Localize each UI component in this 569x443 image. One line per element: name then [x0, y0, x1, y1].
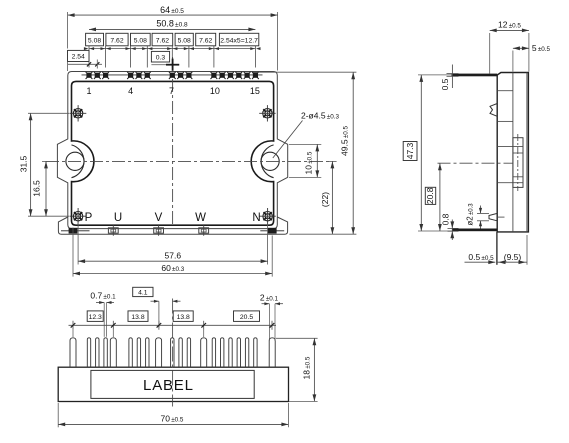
side view: ear top edge — [497, 146, 513, 148]
signal pin 9 (front view) — [187, 338, 190, 367]
round pin top-right (phi2) — [259, 105, 275, 121]
boxed pitch dimension 7.62 — [106, 33, 128, 46]
svg-text:13.8: 13.8 — [131, 314, 144, 321]
left mounting hole phi4.5 — [66, 152, 84, 170]
boxed pitch dimension 7.62 — [152, 33, 173, 46]
svg-text:5.08: 5.08 — [178, 38, 191, 45]
plan vertical centerline — [172, 57, 174, 226]
dimension 4.1 (boxed) V pin to pin 7 — [133, 287, 181, 327]
side view: case/baseplate boundary line — [512, 73, 514, 232]
dimension 0.7 +/-0.1 signal pin width — [90, 291, 116, 337]
svg-text:7.62: 7.62 — [110, 38, 123, 45]
svg-text:12.3: 12.3 — [89, 314, 102, 321]
side view: hole centerline horizontal — [438, 162, 514, 164]
svg-text:(9.5): (9.5) — [504, 252, 522, 262]
svg-text:5.08: 5.08 — [88, 38, 101, 45]
svg-text:LABEL: LABEL — [143, 377, 194, 394]
svg-text:10: 10 — [210, 86, 220, 96]
svg-text:15: 15 — [250, 86, 260, 96]
signal pin 6 (front view) — [146, 338, 149, 367]
signal pin 10 (front view) — [212, 338, 215, 367]
signal pin 5 (plan, hatched square) — [136, 73, 141, 78]
dimension 12 +/-0.5 overall height — [490, 19, 529, 73]
dimension (22) hole center to bottom — [320, 161, 336, 234]
boxed pitch dimension 2.54x5=12.7 — [219, 33, 258, 46]
side view: boss block inner lines — [513, 147, 523, 183]
side view: phi2 round pin stub — [489, 213, 497, 220]
dimension 0.8 power pin protrusion — [440, 213, 458, 240]
signal pin 7 (front view) — [171, 338, 174, 367]
signal pin 1 (plan, hatched square) — [86, 73, 91, 78]
pitch boundary extension lines — [89, 46, 255, 68]
svg-text:U: U — [114, 212, 122, 224]
svg-text:W: W — [195, 212, 206, 224]
signal pin 8 (front view) — [179, 338, 182, 367]
power pin tab at x=203.7 (plan) — [199, 228, 209, 233]
svg-text:7: 7 — [169, 86, 174, 96]
signal pin 13 (front view) — [237, 338, 240, 367]
dimension 5 +/-0.5 baseplate height — [513, 43, 551, 72]
svg-text:0.3: 0.3 — [156, 55, 166, 62]
side view: mounting boss block — [513, 138, 523, 188]
dimension 2 +/-0.1 power pin width — [260, 292, 283, 341]
svg-text:47.3: 47.3 — [405, 142, 415, 159]
signal pin 15 (front view) — [254, 338, 257, 367]
svg-text:13.8: 13.8 — [177, 314, 190, 321]
signal pin 4 (plan, hatched square) — [128, 73, 133, 78]
side view: signal pin row (edge-on) — [452, 74, 498, 77]
svg-text:0.5: 0.5 — [440, 78, 450, 90]
signal pin 8 (plan, hatched square) — [178, 73, 183, 78]
signal pin 6 (plan, hatched square) — [145, 73, 150, 78]
dimension 10 +/-0.5 ear width — [289, 144, 321, 177]
signal pin 7 (plan, hatched square) — [170, 73, 175, 78]
signal pin 2 (plan, hatched square) — [95, 73, 100, 78]
round pin bottom-right N terminal (phi2) — [259, 208, 275, 224]
power pin tab at x=158.6 (plan) — [154, 228, 164, 233]
signal pin 14 (plan, hatched square) — [245, 73, 250, 78]
signal pin 15 (plan, hatched square) — [253, 73, 258, 78]
signal pin 10 (plan, hatched square) — [211, 73, 216, 78]
signal pin 9 (plan, hatched square) — [186, 73, 191, 78]
svg-text:4: 4 — [128, 86, 133, 96]
P power pin tab (plan, hatched) — [69, 228, 78, 234]
svg-text:57.6: 57.6 — [165, 250, 182, 260]
dimension 31.5 between pin rows (left) — [19, 113, 70, 216]
dimension 49.5 +/-0.5 overall depth — [253, 72, 356, 234]
right mounting boss inner arc — [261, 145, 274, 178]
round pin top-left (phi2) — [70, 105, 86, 121]
signal pin 14 (front view) — [245, 338, 248, 367]
svg-text:2.54x5=12.7: 2.54x5=12.7 — [220, 38, 258, 45]
signal pin 12 (front view) — [229, 338, 232, 367]
power pin U (front view) — [110, 338, 116, 367]
svg-text:1: 1 — [86, 86, 91, 96]
round pin bottom-left P terminal (phi2) — [70, 208, 86, 224]
signal pin 13 (plan, hatched square) — [236, 73, 241, 78]
side view: baseplate inner edge — [526, 73, 528, 232]
front view terminal position line with ticks — [69, 321, 277, 337]
boxed pitch dimension 5.08 — [175, 33, 193, 46]
dimension 0.5 signal pin thickness — [440, 65, 458, 91]
boxed pitch dimension 7.62 — [196, 33, 216, 46]
right mounting hole phi4.5 — [261, 152, 279, 170]
dimension 64 +/-0.5 overall width — [67, 12, 69, 49]
front view: label recess box — [91, 370, 254, 398]
boxed pitch dimension 5.08 — [86, 33, 104, 46]
signal pin 1 (front view) — [87, 338, 90, 367]
dimension 47.3 (boxed) pin row span side view — [403, 75, 452, 231]
svg-text:7.62: 7.62 — [156, 38, 169, 45]
side view: case clip detail — [490, 104, 497, 117]
side view: ear bottom edge — [497, 182, 513, 184]
N power pin tab (plan, hatched) — [268, 228, 277, 234]
signal pin 4 (front view) — [129, 338, 132, 367]
power pin P (front view) — [70, 338, 76, 367]
dimension 60 +/-0.3 terminal span — [73, 228, 272, 277]
svg-text:5.08: 5.08 — [134, 38, 147, 45]
signal pin 12 (plan, hatched square) — [228, 73, 233, 78]
side view: case outline — [497, 73, 528, 232]
front view: module body bar — [58, 367, 288, 401]
svg-text:20.8: 20.8 — [425, 187, 435, 204]
signal pin 3 (front view) — [104, 338, 107, 367]
dimension 2.54 (boxed) first pin offset — [68, 50, 103, 71]
plan horizontal centerline through mounting holes — [46, 160, 333, 162]
svg-text:P: P — [85, 212, 93, 224]
plan view: module body outer outline with mounting ears — [57, 72, 287, 229]
signal pin 2 (front view) — [96, 338, 99, 367]
svg-text:4.1: 4.1 — [138, 289, 148, 296]
side view: internal horizontal line — [497, 120, 513, 122]
svg-text:16.5: 16.5 — [32, 180, 42, 197]
dimension 57.6 between P and N pins — [78, 223, 268, 265]
leader 2-phi4.5 +/-0.3 mounting holes — [273, 111, 340, 158]
pitch arrow line under boxes — [84, 47, 261, 50]
dimension 0.3 (boxed) centerline offset with bold position cross — [151, 51, 179, 70]
boxed dimension 13.8 (front view) — [128, 311, 148, 322]
dimension 0.5 +/-0.5 and (9.5) bottom of side view — [465, 232, 528, 265]
signal pin 3 (plan, hatched square) — [103, 73, 108, 78]
dimension 18 +/-0.5 overall height front view — [276, 338, 318, 401]
dimension phi2 +/-0.3 round pin diameter — [466, 203, 489, 229]
dimension 50.8 +/-0.8 pin row span — [89, 28, 255, 30]
svg-text:0.8: 0.8 — [440, 213, 450, 225]
svg-text:N: N — [252, 212, 260, 224]
power pin tab at x=113.3 (plan) — [108, 228, 118, 233]
dimension 20.8 (boxed) hole center to pin row — [425, 163, 442, 231]
svg-text:V: V — [155, 212, 163, 224]
power pin N (front view) — [269, 338, 275, 367]
power pin W (front view) — [201, 338, 207, 367]
plan view: module case inner outline (thick) with mounting boss arcs — [72, 81, 274, 225]
svg-text:7.62: 7.62 — [199, 38, 212, 45]
svg-text:31.5: 31.5 — [19, 155, 29, 172]
boxed dimension 12.3 (front view) — [87, 311, 103, 322]
power pin V (front view) — [156, 338, 162, 367]
boxed dimension 13.8 (front view) — [173, 311, 193, 322]
side view: internal horizontal line upper — [497, 90, 513, 92]
left mounting boss inner arc — [72, 145, 85, 178]
signal pin 5 (front view) — [137, 338, 140, 367]
svg-text:(22): (22) — [320, 192, 330, 207]
boxed pitch dimension 5.08 — [131, 33, 151, 46]
svg-text:2.54: 2.54 — [72, 54, 85, 61]
side view: power pin row (edge-on) — [452, 229, 497, 232]
baseplate flange outline (70mm wide) — [58, 217, 287, 234]
boxed dimension 20.5 (front view) — [234, 311, 260, 322]
signal pin 11 (plan, hatched square) — [220, 73, 225, 78]
signal pin 11 (front view) — [221, 338, 224, 367]
front view centerline — [172, 299, 174, 407]
dimension 70 +/-0.5 baseplate width — [58, 403, 288, 427]
dimension 16.5 hole center to pin row (left) — [32, 161, 51, 216]
svg-text:20.5: 20.5 — [240, 314, 253, 321]
top signal pin row line — [82, 74, 263, 76]
side view: hole hidden centerline vertical — [517, 134, 519, 191]
